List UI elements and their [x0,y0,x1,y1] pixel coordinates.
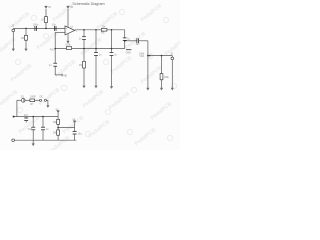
ground arrow x96 [94,86,97,89]
dc jack pin 2 [44,99,46,101]
svg-text:GND: GND [126,52,132,55]
watermark blobs [15,9,176,140]
wire jack stub [12,27,14,30]
svg-text:9V: 9V [56,110,59,112]
junction dots bus1 [32,116,43,118]
svg-text:47p: 47p [50,48,55,51]
resistor R8 divider top [57,119,60,124]
net flag VB inv [62,74,67,78]
capacitor C12 vb [73,132,77,134]
wire divider bottom [57,135,59,140]
wire vb cap upper [74,128,76,132]
wire branch to out cap [125,40,137,42]
wire opamp vee pin [67,33,69,41]
resistor R7 power [30,99,35,102]
op-amp U1 [65,26,75,35]
wire opamp vcc pin [67,9,69,27]
svg-text:VOL: VOL [140,55,145,58]
wire drop x111.5 upper [111,30,113,52]
svg-text:47u: 47u [24,114,29,117]
wire cap x26 tail [25,121,27,123]
wire divider mid [57,124,59,130]
wire power row [17,99,21,101]
diode D1 [21,98,25,102]
capacitor C7 output [137,38,139,43]
capacitor C3 inv [53,63,57,66]
wire drop x84 mid [83,40,85,61]
junction dot out row [161,55,163,57]
supply flag 9V left [44,6,51,9]
wire drop x161.5 lower [161,80,163,88]
wire x33 lower [32,130,34,140]
wire input main [13,27,65,29]
wire jack2 ground [171,60,173,88]
wire drop x84 upper [83,30,85,36]
wire R to jack pin [35,99,40,101]
svg-text:100k: 100k [164,76,170,79]
ground arrow x84 [82,86,85,89]
svg-text:9V: 9V [70,7,73,9]
ground arrow pot [146,88,149,91]
input jack J1 circle [12,29,15,32]
svg-text:10n: 10n [52,23,57,26]
wire diode to R [25,99,30,101]
supply flag 9V opamp [66,6,73,9]
ground arrow x111 [110,86,113,89]
wire divider top [57,113,59,119]
svg-text:10u: 10u [78,132,83,135]
ground arrow dc [46,105,49,108]
resistor R5 series out [101,29,107,32]
svg-text:Schematic Diagram: Schematic Diagram [72,2,104,6]
resistor R6 out [160,74,163,80]
ground arrow R1 [24,49,27,52]
wire out cap to corner [139,40,148,42]
wire R pulldown top [25,28,27,35]
wire x33 upper [32,117,34,127]
resistor R3 feedback [66,47,71,50]
wire corner to VB flag [55,74,62,76]
wire x33 gnd stub [32,140,34,143]
junction dot divider [57,127,59,129]
resistor R1 pulldown [25,35,28,40]
junction dot pot [147,55,149,57]
wire drop x111.5 lower [111,56,113,86]
wire output [75,29,125,31]
svg-text:1M: 1M [79,64,82,67]
wire corner x124.7 lower [124,41,126,49]
wire inv cap to corner [54,67,56,75]
gnd flag row end [126,50,132,55]
wire dc sleeve down [47,100,48,105]
wire vb branch [58,123,75,127]
capacitor C6 x124 [123,38,127,41]
capacitor C4 x84 [82,37,86,40]
junction dots top [25,28,112,31]
ground arrow R6 [160,88,163,91]
wire x43 upper [42,117,44,127]
wire feedback row [55,48,125,50]
wire inv down to row [54,32,56,62]
wire output row [148,55,172,57]
svg-text:VB: VB [63,74,67,78]
ground arrow bus2 [32,143,35,146]
wire x43 lower [42,130,44,140]
wire vb cap lower [74,134,76,140]
wire jack ground [12,32,14,49]
watermark pattern [0,3,187,155]
wire corner x124.7 upper [124,30,126,38]
wire bias R up to flag [45,9,47,17]
ground arrow jack2 [171,88,174,91]
capacitor C1 series [35,26,37,31]
svg-text:DC: DC [40,96,44,99]
wire drop x84 lower [83,68,85,85]
capacitor C8 x111 [110,53,114,56]
bus2 terminal circle [12,139,15,142]
junction dot bus1 left [13,116,15,118]
wire drop x96 lower [95,56,97,86]
capacitor C5 x96 [94,53,98,56]
wire inverting input [55,31,65,33]
wire drop x96 upper [95,30,97,52]
svg-text:9V: 9V [48,7,51,9]
wire jack2 stub [171,56,173,58]
potentiometer wiper arrow [148,55,150,57]
wire pot vertical [147,41,149,88]
net flag VB [72,119,76,123]
wire cap x26 stub [25,117,27,118]
resistor R2 bias [45,17,48,23]
junction dots row [54,40,125,49]
ground arrow jack1 [12,49,15,52]
wire bus2 [14,139,76,141]
svg-text:100R: 100R [30,95,36,98]
svg-text:100k: 100k [65,43,71,46]
wire power corner down [16,100,18,116]
svg-text:4u7: 4u7 [136,43,141,46]
svg-text:1M: 1M [21,37,24,40]
wire bias R down [45,23,47,29]
ground arrow opamp [66,41,69,44]
capacitor C10 x33 [31,127,35,130]
supply flag 9V divider [56,110,60,114]
wire drop x161.5 upper [161,56,163,74]
capacitor C9 x26 [24,118,28,121]
dc jack pin 1 [40,99,42,101]
resistor R9 divider bottom [57,130,60,135]
wire bus1 [14,116,59,118]
output jack J2 circle [171,57,174,60]
svg-text:C10: C10 [28,128,33,131]
wire R pulldown bottom [25,40,27,48]
svg-text:-: - [66,32,67,35]
capacitor C11 x43 [41,127,45,130]
svg-text:100n: 100n [33,24,39,27]
resistor R4 x84 [83,61,86,68]
capacitor C2 series [54,26,56,31]
svg-text:VB: VB [72,119,76,121]
